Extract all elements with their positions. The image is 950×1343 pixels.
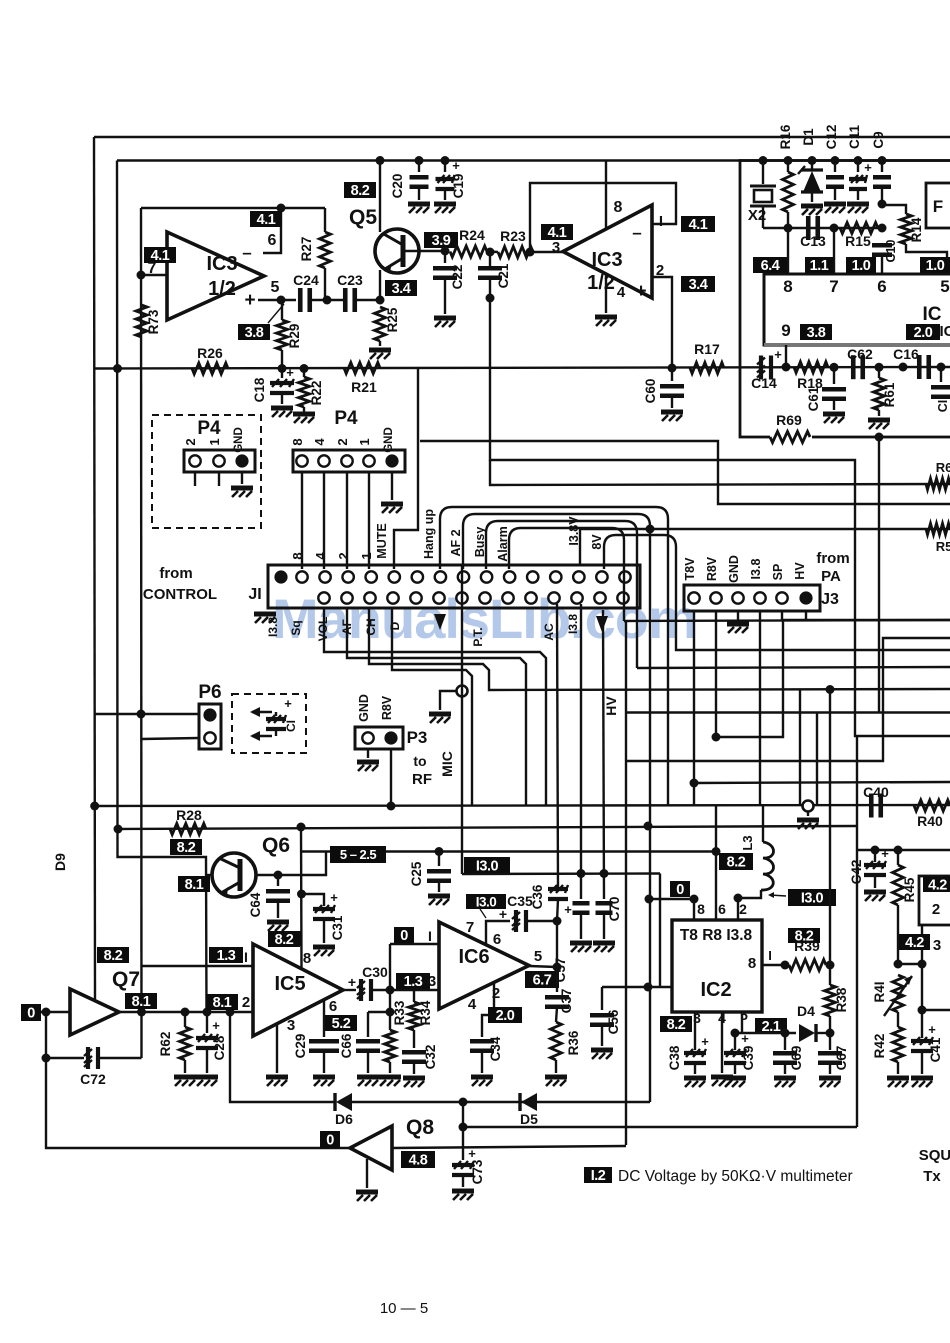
resistor R40 xyxy=(914,800,950,811)
ground C41 xyxy=(911,1078,933,1087)
voltage 8.2 C31 xyxy=(269,931,301,946)
wire pin7 stub xyxy=(833,228,835,274)
junction xyxy=(297,823,306,832)
voltage 8.2 IC5 xyxy=(268,931,300,947)
ground C11 xyxy=(847,204,869,213)
svg-text:1: 1 xyxy=(207,438,222,445)
junction xyxy=(577,869,586,878)
svg-text:I3.0: I3.0 xyxy=(476,894,497,909)
svg-text:C66: C66 xyxy=(339,1033,354,1058)
svg-text:6: 6 xyxy=(877,277,886,296)
svg-text:1.1: 1.1 xyxy=(810,258,829,274)
capacitor C22 xyxy=(444,251,446,263)
capacitor xyxy=(478,268,502,278)
svg-text:R23: R23 xyxy=(500,228,526,244)
box filter FL1 xyxy=(926,183,950,228)
junction xyxy=(137,1008,146,1017)
wire Q7 out to IC5 xyxy=(119,1011,253,1013)
svg-text:0: 0 xyxy=(27,1006,35,1022)
wire bus a xyxy=(490,298,950,736)
resistor R21 xyxy=(344,363,380,374)
svg-text:4.2: 4.2 xyxy=(905,935,924,951)
svg-text:7: 7 xyxy=(829,277,838,296)
connector pin xyxy=(387,592,398,603)
svg-text:1: 1 xyxy=(357,438,372,445)
wire bus b xyxy=(420,441,950,504)
wire y874 bus xyxy=(462,872,660,875)
junction xyxy=(297,890,306,899)
junction xyxy=(781,1029,790,1038)
voltage 2.0 xyxy=(906,324,940,340)
electrolytic capacitor C38 xyxy=(694,1012,696,1050)
wire to D4 xyxy=(735,1032,796,1034)
junction xyxy=(323,296,332,305)
wire J3 gnd xyxy=(737,611,739,620)
capacitor xyxy=(873,177,891,187)
wire IC6 output xyxy=(529,966,557,967)
svg-text:C16: C16 xyxy=(893,346,919,362)
svg-text:C9: C9 xyxy=(871,131,886,148)
capacitor C61 xyxy=(833,367,835,384)
electrolytic capacitor xyxy=(849,175,867,189)
svg-text:C73: C73 xyxy=(470,1159,485,1184)
svg-text:R25: R25 xyxy=(385,307,400,332)
arrow left 1 xyxy=(252,711,272,713)
junction xyxy=(113,364,122,373)
voltage 5.2 xyxy=(325,1015,357,1031)
svg-text:Q7: Q7 xyxy=(112,968,140,991)
voltage 1.3 IC5 xyxy=(209,947,243,963)
connector pin xyxy=(318,592,329,603)
wire xtal row xyxy=(763,227,882,229)
ground C39 xyxy=(724,1078,746,1087)
svg-text:R4I: R4I xyxy=(872,981,887,1002)
ground C67 xyxy=(819,1078,841,1087)
svg-text:I: I xyxy=(244,949,248,965)
wire bus y668 xyxy=(637,667,950,668)
junction xyxy=(690,895,699,904)
wire C23 to Q5 xyxy=(355,299,380,301)
connector P4-2 housing xyxy=(293,450,405,472)
svg-text:I.2: I.2 xyxy=(591,1168,606,1184)
resistor R22 xyxy=(299,377,310,407)
svg-text:C56: C56 xyxy=(606,1009,621,1034)
voltage 4.2 a xyxy=(923,877,950,892)
transistor Q6 xyxy=(212,853,256,897)
wire dropper x800 xyxy=(799,690,801,807)
svg-text:I: I xyxy=(428,928,432,944)
svg-text:C34: C34 xyxy=(488,1036,503,1061)
voltage 8.2 L3 xyxy=(719,853,753,870)
voltage 8.1 Q7 xyxy=(125,993,157,1009)
svg-text:5: 5 xyxy=(940,277,949,296)
capacitor C23 xyxy=(345,288,355,312)
junction xyxy=(830,363,839,372)
capacitor xyxy=(470,1041,494,1051)
ground C22 xyxy=(434,318,456,327)
connector pin xyxy=(341,592,352,603)
ground C56 xyxy=(591,1050,613,1059)
connector pin xyxy=(525,592,536,603)
svg-text:8: 8 xyxy=(748,955,756,972)
wire P4 to J1 pin2 xyxy=(346,472,348,569)
junction xyxy=(644,822,653,831)
wire Busy loop xyxy=(486,521,637,668)
wire x660 dropper xyxy=(659,874,661,988)
ground C19 xyxy=(434,204,456,213)
svg-text:HV: HV xyxy=(603,696,619,716)
connector pin xyxy=(341,455,352,466)
svg-text:C42: C42 xyxy=(849,860,864,885)
svg-text:R14: R14 xyxy=(909,217,924,242)
svg-text:–: – xyxy=(632,223,641,242)
capacitor xyxy=(410,177,429,187)
connector pin xyxy=(527,571,538,582)
box P4 dashed xyxy=(152,415,261,528)
wire P4-2 gnd xyxy=(391,472,393,500)
voltage 8.2 R39 xyxy=(788,928,820,943)
resistor R73 xyxy=(136,305,147,337)
junction xyxy=(646,525,655,534)
connector pin xyxy=(363,455,374,466)
capacitor xyxy=(596,903,613,913)
voltage 0 Q7 xyxy=(21,1004,41,1021)
svg-text:C64: C64 xyxy=(248,892,263,917)
svg-text:3: 3 xyxy=(933,937,941,954)
electrolytic capacitor xyxy=(357,979,371,1001)
electrolytic capacitor xyxy=(84,1047,98,1069)
svg-text:+: + xyxy=(284,696,292,711)
wire audio bus y368 xyxy=(94,367,950,369)
svg-text:C18: C18 xyxy=(252,377,267,402)
junction xyxy=(731,1029,740,1038)
svg-text:P3: P3 xyxy=(407,728,428,747)
svg-text:6.4: 6.4 xyxy=(761,258,780,274)
wire R45 R41 node xyxy=(898,963,922,965)
svg-text:from: from xyxy=(816,550,849,567)
junction xyxy=(937,363,946,372)
wire pin1 IC5 xyxy=(142,965,254,967)
voltage 4.1 at pin3 xyxy=(541,224,573,240)
svg-text:8: 8 xyxy=(303,950,311,967)
capacitor C40 xyxy=(871,794,881,818)
svg-text:8: 8 xyxy=(290,552,305,559)
capacitor xyxy=(266,891,290,901)
connector P6 housing xyxy=(199,704,221,749)
voltage 4.1 at pin7 xyxy=(144,247,176,263)
resistor R14 xyxy=(882,205,906,214)
ground C57 xyxy=(570,943,592,952)
capacitor C18 xyxy=(281,369,283,379)
connector J1 housing xyxy=(268,565,640,608)
svg-text:2: 2 xyxy=(932,901,940,918)
svg-text:6: 6 xyxy=(718,901,726,917)
svg-text:C61: C61 xyxy=(806,386,821,411)
svg-text:R5: R5 xyxy=(936,539,950,554)
connector J3 housing xyxy=(684,585,820,611)
svg-text:+: + xyxy=(286,365,294,380)
capacitor xyxy=(872,245,892,255)
resistor xyxy=(893,865,904,905)
connector pin xyxy=(479,592,490,603)
terminal on y806 xyxy=(803,801,814,812)
svg-text:IC5: IC5 xyxy=(274,973,305,995)
svg-text:C40: C40 xyxy=(863,784,889,800)
voltage 0 IC6 xyxy=(394,927,414,943)
wire x830 vertical xyxy=(829,689,831,965)
resistor xyxy=(385,1030,396,1062)
svg-text:D: D xyxy=(388,621,402,630)
electrolytic capacitor xyxy=(724,1049,746,1063)
svg-text:R16: R16 xyxy=(778,124,793,149)
voltage 13.0 L3 xyxy=(788,889,836,906)
capacitor C20 xyxy=(418,161,420,173)
svg-text:3: 3 xyxy=(422,971,430,988)
svg-text:+: + xyxy=(774,347,782,362)
wire pin6 column xyxy=(715,806,717,920)
junction xyxy=(435,847,444,856)
box IC1 block border xyxy=(740,161,950,438)
svg-text:IC6: IC6 xyxy=(458,946,489,968)
svg-text:C36: C36 xyxy=(530,884,545,909)
svg-text:+: + xyxy=(701,1034,709,1049)
wire pin7 xyxy=(141,274,167,276)
capacitor C15 xyxy=(940,367,942,382)
svg-text:8: 8 xyxy=(290,438,305,445)
svg-text:R8V: R8V xyxy=(380,695,394,720)
connector pin xyxy=(433,592,444,603)
svg-text:I: I xyxy=(768,948,772,963)
svg-text:3.4: 3.4 xyxy=(392,281,411,297)
svg-text:C13: C13 xyxy=(800,233,826,249)
wire feedback Q8 to Q7 xyxy=(46,1012,350,1148)
resistor R38 xyxy=(829,965,831,985)
capacitor C29 xyxy=(323,1001,325,1037)
wire bus y761 xyxy=(626,638,950,761)
svg-text:R39: R39 xyxy=(794,938,820,954)
svg-text:8: 8 xyxy=(614,199,623,216)
wire R23 to IC3 pin3 xyxy=(533,251,563,253)
svg-text:1.0: 1.0 xyxy=(852,258,871,274)
resistor R42 xyxy=(897,1012,899,1027)
connector pin xyxy=(548,592,559,603)
svg-text:from: from xyxy=(159,565,192,582)
svg-text:I3.8: I3.8 xyxy=(566,614,580,634)
ground IC2 pin4 xyxy=(711,1077,733,1086)
ground R62 xyxy=(174,1077,196,1086)
wire pin8 stub xyxy=(787,228,789,274)
svg-text:CI: CI xyxy=(936,400,950,413)
node pin7 xyxy=(137,271,146,280)
svg-text:+: + xyxy=(212,1018,220,1033)
wire 13.8V bus xyxy=(580,529,950,565)
svg-text:C31: C31 xyxy=(330,915,345,940)
ground C31 xyxy=(313,947,335,956)
resistor R15 xyxy=(840,223,878,234)
wire bus c xyxy=(490,460,950,485)
wire MIC stub xyxy=(440,691,456,710)
op-amp IC3 1/2 (first) xyxy=(167,232,264,320)
svg-text:9: 9 xyxy=(781,321,790,340)
wire x857 vertical xyxy=(856,736,858,1127)
connector pin xyxy=(318,455,329,466)
svg-text:C41: C41 xyxy=(928,1037,943,1062)
svg-text:2: 2 xyxy=(335,438,350,445)
wire to IC6 pin1 xyxy=(390,943,439,945)
capacitor C13 xyxy=(808,216,818,240)
junction xyxy=(203,1008,212,1017)
wire pin1 feed xyxy=(389,944,391,990)
voltage 6.7 xyxy=(525,971,559,988)
svg-text:+: + xyxy=(330,890,338,905)
capacitor C9 xyxy=(881,161,883,173)
svg-text:2.0: 2.0 xyxy=(914,325,933,341)
junction xyxy=(712,847,721,856)
svg-text:C25: C25 xyxy=(409,861,424,886)
ground terminal xyxy=(797,820,819,829)
junction xyxy=(137,710,146,719)
ground IC3 pin4 xyxy=(595,317,617,326)
voltage 4.8 xyxy=(401,1151,435,1168)
electrolytic capacitor xyxy=(313,905,335,919)
wire P3 R8V xyxy=(390,749,392,806)
svg-text:3.8: 3.8 xyxy=(245,325,264,341)
svg-text:8.1: 8.1 xyxy=(213,995,232,1011)
electrolytic capacitor xyxy=(270,379,294,393)
wire to IC6 pin3 xyxy=(372,989,439,991)
svg-text:4.1: 4.1 xyxy=(151,248,170,264)
wire R27 top xyxy=(324,208,326,232)
junction xyxy=(831,156,840,165)
svg-text:+: + xyxy=(635,281,646,302)
svg-text:R6: R6 xyxy=(936,460,950,475)
svg-text:MUTE: MUTE xyxy=(375,523,389,558)
resistor R69 on border xyxy=(770,431,812,443)
svg-text:6.7: 6.7 xyxy=(533,973,552,989)
junction xyxy=(274,871,283,880)
svg-text:D5: D5 xyxy=(520,1111,538,1127)
wire IC2 out xyxy=(762,964,785,966)
wire Q7 input xyxy=(41,1011,70,1013)
wire P4 gnd stub xyxy=(241,472,243,484)
junction xyxy=(781,961,790,970)
ground R33 xyxy=(379,1077,401,1086)
resistor R26 xyxy=(192,363,228,374)
wire to C31 xyxy=(302,894,325,906)
svg-text:8: 8 xyxy=(697,901,705,917)
svg-text:R24: R24 xyxy=(459,227,485,243)
svg-text:3: 3 xyxy=(552,239,560,256)
ground MIC xyxy=(429,714,451,723)
electrolytic capacitor xyxy=(436,175,455,189)
svg-text:I3.8: I3.8 xyxy=(749,559,763,580)
junction xyxy=(894,846,903,855)
voltage 5-2.5 xyxy=(330,846,386,863)
svg-text:C23: C23 xyxy=(337,272,363,288)
svg-text:2: 2 xyxy=(336,552,351,559)
voltage 0 IC2 xyxy=(670,881,690,897)
junction xyxy=(918,960,927,969)
junction xyxy=(878,156,887,165)
wire to C72 xyxy=(46,1057,84,1059)
connector pin xyxy=(732,592,743,603)
voltage 3.4 at pin2 xyxy=(681,276,715,292)
junction xyxy=(553,917,562,926)
svg-text:R28: R28 xyxy=(176,807,202,823)
ground C25 xyxy=(428,896,450,905)
svg-text:1/2: 1/2 xyxy=(587,272,615,294)
transistor Q5 xyxy=(375,229,419,273)
svg-text:R21: R21 xyxy=(351,379,377,395)
junction xyxy=(826,685,835,694)
voltage 8.2 pin3 xyxy=(660,1016,692,1032)
junction xyxy=(875,363,884,372)
voltage 3.4 xyxy=(385,280,417,296)
wire T8V net xyxy=(693,611,695,806)
connector pin xyxy=(213,455,224,466)
svg-text:C37: C37 xyxy=(559,989,574,1014)
voltage 4.2 b xyxy=(899,934,930,950)
wire block down xyxy=(878,437,880,713)
resistor R45 xyxy=(897,850,899,865)
wire C35 to node xyxy=(527,920,557,922)
junction xyxy=(668,364,677,373)
svg-text:C19: C19 xyxy=(451,174,466,199)
ground C29 xyxy=(313,1077,335,1086)
wire R8V to bus xyxy=(716,620,950,737)
resistor xyxy=(825,985,836,1016)
svg-text:1: 1 xyxy=(359,552,374,559)
svg-text:CONTROL: CONTROL xyxy=(143,586,217,603)
wire R29 top xyxy=(281,300,283,320)
connector pin xyxy=(203,708,216,721)
junction xyxy=(486,248,495,257)
wire pin4 gnd xyxy=(721,1012,723,1073)
svg-text:GND: GND xyxy=(383,427,395,453)
junction xyxy=(441,247,450,256)
resistor R69 xyxy=(770,432,810,443)
wire pin5 stub xyxy=(741,1012,743,1033)
connector pin xyxy=(619,571,630,582)
capacitor C70 xyxy=(603,610,604,899)
svg-text:C14: C14 xyxy=(751,375,777,391)
svg-text:C39: C39 xyxy=(741,1046,756,1071)
svg-text:IC3: IC3 xyxy=(206,253,237,275)
junction xyxy=(114,825,123,834)
svg-text:2: 2 xyxy=(183,438,198,445)
junction xyxy=(854,156,863,165)
capacitor C62 xyxy=(853,355,863,379)
voltage 8.2 Q6 xyxy=(170,839,202,855)
wire Alarm loop xyxy=(509,528,624,621)
capacitor C66 xyxy=(368,1011,390,1013)
junction xyxy=(277,204,286,213)
wire callout 13.0 xyxy=(770,895,786,896)
svg-text:8.2: 8.2 xyxy=(275,932,294,948)
svg-text:T8V: T8V xyxy=(683,557,697,581)
junction xyxy=(871,846,880,855)
voltage 1.2 legend xyxy=(584,1167,612,1183)
resistor R39 xyxy=(789,960,826,971)
ground C69 xyxy=(774,1078,796,1087)
svg-text:+: + xyxy=(244,290,255,311)
svg-text:8.2: 8.2 xyxy=(104,948,123,964)
wire HV vertical xyxy=(625,621,627,1145)
svg-text:C24: C24 xyxy=(293,272,319,288)
wire 13.8 column xyxy=(557,604,558,889)
svg-text:R42: R42 xyxy=(872,1034,887,1059)
voltage 8.1 IC5 xyxy=(206,994,238,1010)
